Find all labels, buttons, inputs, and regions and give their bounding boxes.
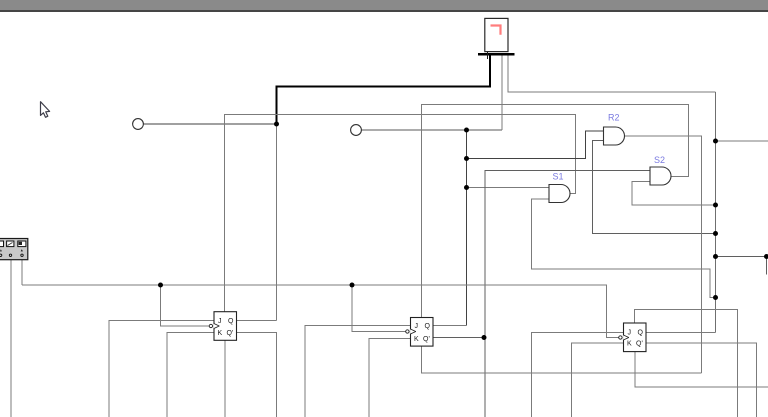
node junction rail S1in2 xyxy=(713,295,718,300)
wire: clock bar drop at x502 xyxy=(501,56,503,131)
input pin P1 xyxy=(133,119,144,130)
wire: vertical x466.5 dots to FF2 Q xyxy=(466,130,468,326)
svg-text:Q: Q xyxy=(228,318,234,325)
node junction rail spur xyxy=(713,254,718,259)
jk flip-flop U2 xyxy=(406,318,433,347)
wire: FF2 clock drop xyxy=(352,285,406,332)
and gate S2 xyxy=(650,155,671,185)
wire: FF3 Qprime output down xyxy=(646,343,757,417)
svg-text:S1: S1 xyxy=(553,172,564,182)
io component at left edge xyxy=(0,239,28,260)
wire: left component pin1 down xyxy=(10,260,12,417)
wire: S2 input2 loop to right rail xyxy=(632,182,716,206)
node junction pin2 line xyxy=(464,128,469,133)
svg-text:J: J xyxy=(628,330,632,337)
svg-text:Q: Q xyxy=(638,330,644,337)
and gate S1 xyxy=(549,172,570,203)
wire: FF2 bottom pin xyxy=(421,346,423,373)
node junction R2 feed xyxy=(464,156,469,161)
wire: FF3 bottom pin xyxy=(635,352,768,388)
input pin P2 xyxy=(351,125,362,136)
wire: R2 input1 feed from dot xyxy=(467,131,604,159)
wire: FF2 J input xyxy=(305,326,411,417)
wire: clock bar drop at x508 to right rail xyxy=(508,56,716,93)
clock component xyxy=(485,18,508,51)
svg-text:K: K xyxy=(627,341,632,348)
wire: FF3 top loop from Qprime xyxy=(635,310,738,417)
svg-text:Q': Q' xyxy=(423,336,430,343)
wire: R2 output down to bottom bus xyxy=(625,136,702,373)
wire: S1 output up and left to FF1 top xyxy=(225,115,576,313)
wire: bold clock net to junction (bar to dot A) xyxy=(277,55,491,124)
wire: R2 input2 feed to right rail xyxy=(593,141,716,234)
wire: FF1 J input xyxy=(109,321,214,417)
svg-text:Q: Q xyxy=(425,323,431,330)
wire: FF3 J feed riser xyxy=(532,333,624,417)
jk flip-flop U1 xyxy=(209,312,236,341)
wire: FF2 Q output xyxy=(433,325,467,327)
wire: rail spur to far right and down xyxy=(716,257,767,275)
svg-text:S2: S2 xyxy=(654,155,665,165)
wire: clock bus bar xyxy=(478,53,515,56)
jk flip-flop U3 xyxy=(619,323,646,352)
wire: FF1 clock drop xyxy=(161,285,210,326)
svg-text:K: K xyxy=(218,330,223,337)
node junction far right xyxy=(764,254,768,259)
wire: main clock distribution bus y285 xyxy=(22,285,619,338)
wire: FF1 K input xyxy=(167,333,214,417)
wire: FF1 Q output xyxy=(237,320,277,322)
title bar xyxy=(0,0,768,12)
svg-text:J: J xyxy=(218,318,222,325)
node junction rail R2in2 xyxy=(713,231,718,236)
wire: right rail x715 xyxy=(715,92,717,333)
svg-text:K: K xyxy=(414,336,419,343)
node junction rail top xyxy=(713,139,718,144)
wire: FF3 K input xyxy=(572,343,624,417)
wire: dot A down to FF1 Q xyxy=(276,124,278,321)
node junction bus FF2 xyxy=(350,283,355,288)
svg-text:Q': Q' xyxy=(636,341,643,348)
wire: input pin 1 to dot A xyxy=(144,123,277,125)
svg-text:R2: R2 xyxy=(608,113,620,123)
wire: FF2 Qprime output xyxy=(433,337,484,339)
wire: S1 input1 from dot xyxy=(467,187,550,189)
mouse cursor xyxy=(41,102,50,118)
wire: right rail out to edge xyxy=(716,140,768,142)
wire: left component pin2 to bus xyxy=(21,260,23,286)
and gate R2 xyxy=(604,113,625,146)
wire: input pin 2 to clock drop xyxy=(362,129,503,131)
svg-text:Q': Q' xyxy=(227,330,234,337)
wire: FF2 K input xyxy=(369,339,411,417)
wire: bottom bus y373 xyxy=(421,372,702,374)
svg-text:J: J xyxy=(415,323,419,330)
node A junction at clock drop xyxy=(274,122,279,127)
node junction FF2 Qprime xyxy=(482,335,487,340)
wire: S1 input2 loop to right rail xyxy=(532,199,716,298)
wire: FF1 Qprime output down xyxy=(237,333,277,417)
wire: FF3 Q output to rail xyxy=(646,332,716,334)
node junction S1 feed xyxy=(464,185,469,190)
wire: FF1 bottom pin xyxy=(224,340,226,417)
wire: clock pin stub xyxy=(487,52,489,60)
wire: S2 output loop to FF2 top xyxy=(422,105,689,319)
wire: S2 input1 long with drop to FF2 Qprime dot xyxy=(485,171,650,417)
node junction rail S2in2 xyxy=(713,203,718,208)
node junction bus FF1 xyxy=(158,283,163,288)
